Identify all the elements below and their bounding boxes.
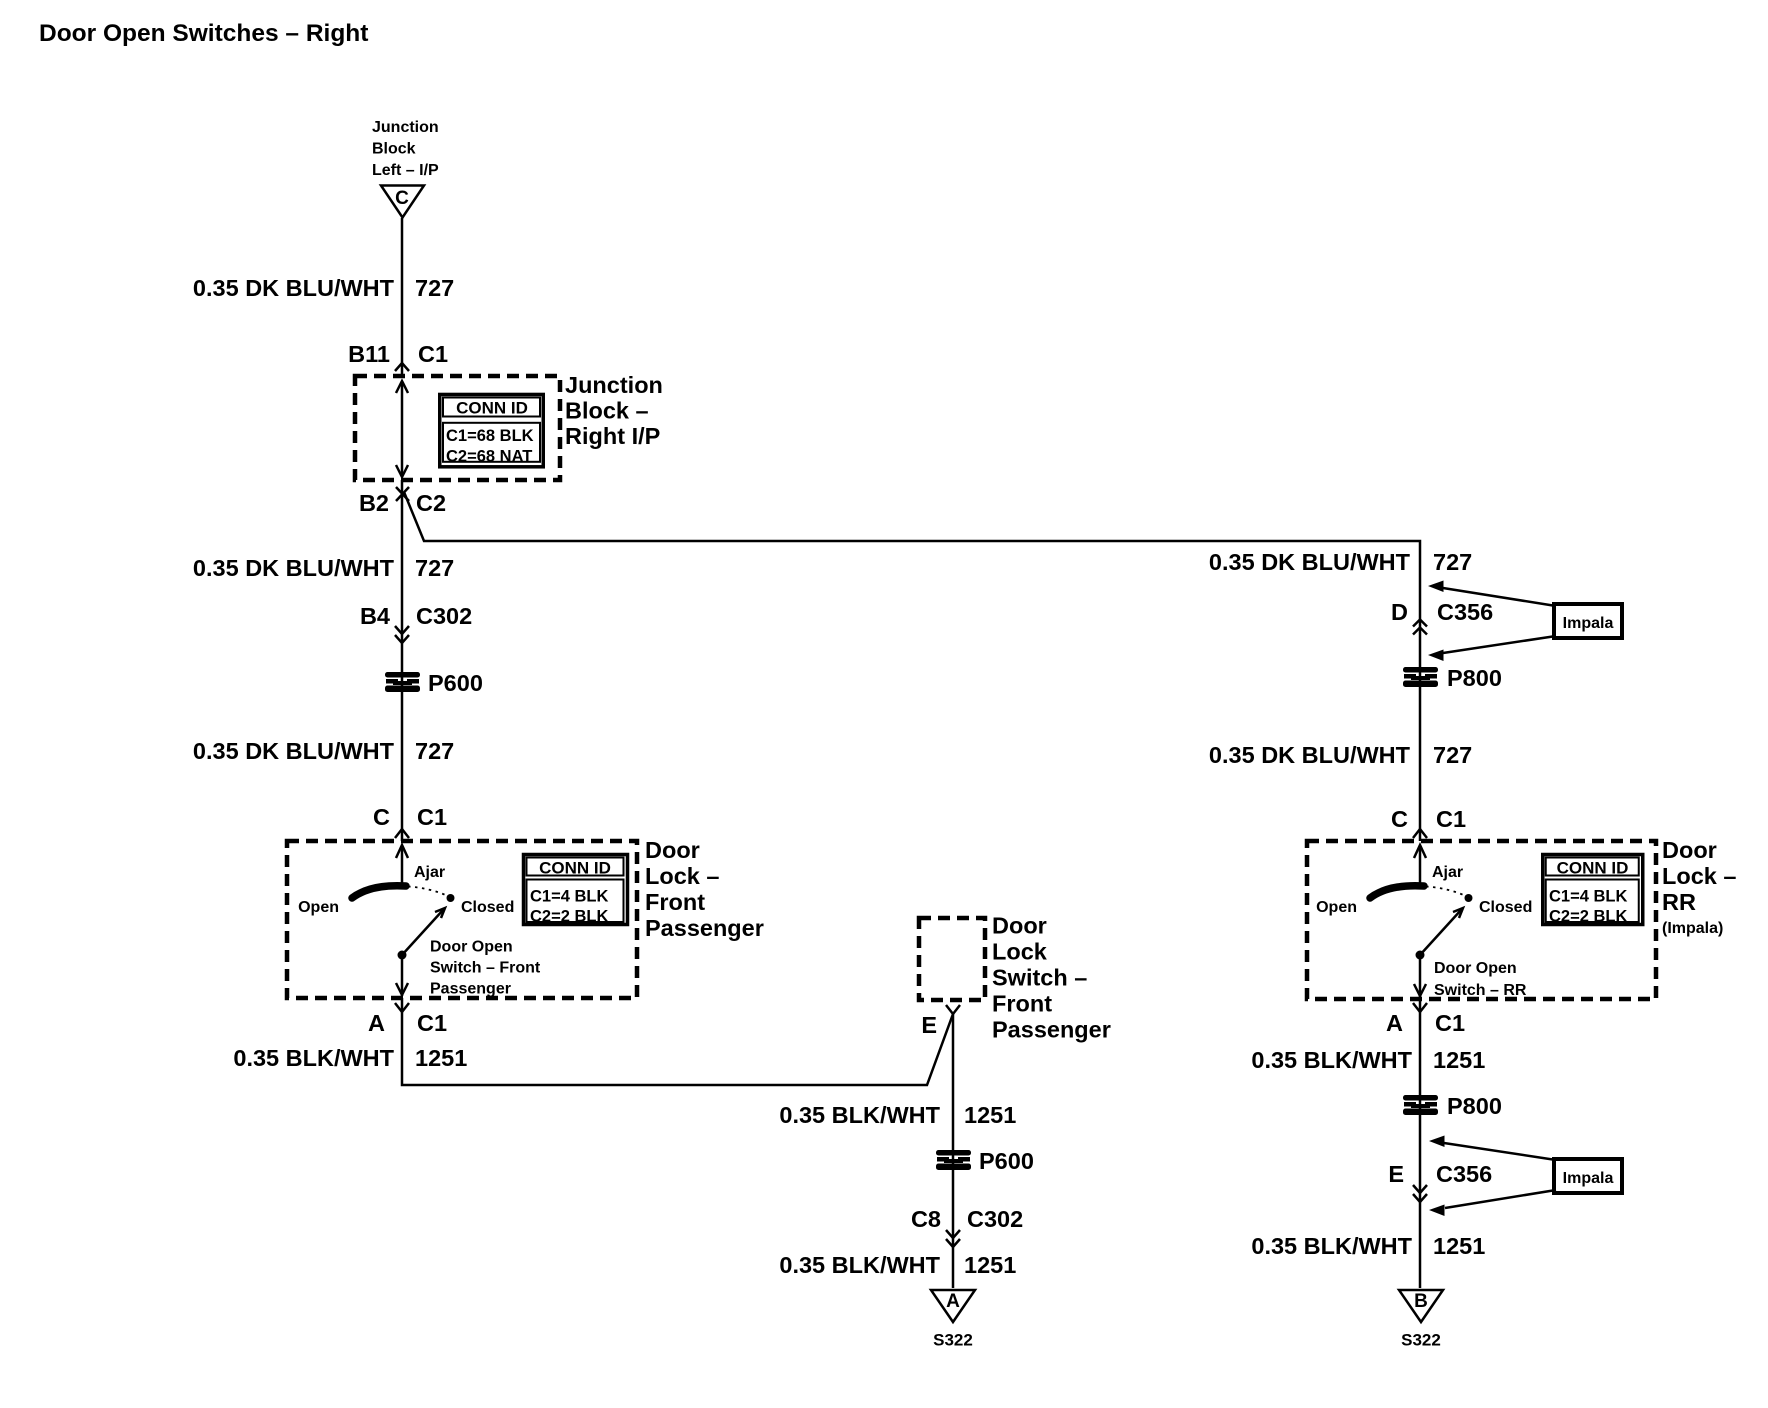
svg-text:Right I/P: Right I/P: [565, 423, 660, 449]
svg-text:0.35 BLK/WHT: 0.35 BLK/WHT: [1251, 1233, 1412, 1259]
svg-text:727: 727: [415, 738, 454, 764]
splice triangle A (S322): [931, 1290, 975, 1322]
connector triangle C: [381, 186, 424, 218]
svg-text:C1: C1: [417, 1010, 447, 1036]
arrowhead up inside junction block: [396, 381, 408, 393]
svg-text:0.35 DK BLU/WHT: 0.35 DK BLU/WHT: [193, 555, 395, 581]
wire from switch RR to box bottom: [1419, 955, 1422, 997]
svg-text:1251: 1251: [415, 1045, 467, 1071]
svg-text:RR: RR: [1662, 889, 1696, 915]
svg-text:C2=2 BLK: C2=2 BLK: [1549, 908, 1627, 926]
svg-text:B4: B4: [360, 603, 390, 629]
wire from switch to box bottom: [401, 955, 404, 996]
svg-text:E: E: [1388, 1161, 1404, 1187]
svg-text:Closed: Closed: [461, 899, 514, 916]
svg-text:C356: C356: [1437, 599, 1493, 625]
svg-text:C1=4 BLK: C1=4 BLK: [530, 888, 608, 906]
svg-text:Door Open: Door Open: [1434, 960, 1517, 977]
svg-text:C2: C2: [416, 490, 446, 516]
door lock RR dashed box: [1307, 841, 1656, 999]
svg-text:C302: C302: [416, 603, 472, 629]
arrowhead down inside junction block: [396, 465, 408, 477]
grommet P800 (right upper): [1403, 667, 1438, 687]
svg-text:1251: 1251: [964, 1252, 1016, 1278]
svg-text:Ajar: Ajar: [1432, 864, 1463, 881]
svg-text:Ajar: Ajar: [414, 864, 445, 881]
Impala pointer arrow (to E/C356): [1429, 1136, 1445, 1148]
wire from junction block down to door lock front passenger: [401, 480, 404, 841]
connector chevron at E (door lock switch FP): [946, 1005, 960, 1014]
svg-text:727: 727: [1433, 742, 1472, 768]
wire from door lock FP to door lock switch FP: [402, 998, 953, 1085]
arrowhead down (to pin A, RR): [1414, 984, 1426, 996]
svg-text:Passenger: Passenger: [430, 981, 511, 998]
switch actuator arrow to Closed (RR): [1420, 910, 1461, 955]
Impala tag box (upper): [1554, 604, 1622, 638]
grommet P600 (middle): [936, 1150, 971, 1170]
svg-text:CONN ID: CONN ID: [1557, 859, 1629, 878]
svg-text:0.35 DK BLU/WHT: 0.35 DK BLU/WHT: [1209, 742, 1411, 768]
grommet P600 (left): [385, 672, 420, 692]
svg-text:727: 727: [415, 555, 454, 581]
svg-text:B2: B2: [359, 490, 389, 516]
svg-text:C: C: [1391, 806, 1408, 832]
connector double chevron at C8/C302: [946, 1230, 960, 1238]
grommet P800 (right lower): [1403, 1095, 1438, 1115]
CONN ID table (junction block): [440, 394, 544, 466]
wire inside junction block: [401, 381, 404, 477]
svg-text:(Impala): (Impala): [1662, 920, 1723, 937]
svg-text:Switch –: Switch –: [992, 965, 1087, 991]
junction block right I/P dashed box: [355, 376, 560, 480]
Impala tag box (lower): [1554, 1159, 1622, 1193]
CONN ID table (door lock RR): [1543, 855, 1643, 925]
svg-text:C1: C1: [417, 804, 447, 830]
connector chevron at C/C1: [395, 829, 409, 838]
svg-text:0.35 BLK/WHT: 0.35 BLK/WHT: [1251, 1047, 1412, 1073]
svg-text:C302: C302: [967, 1206, 1023, 1232]
connector chevron at C/C1 (RR): [1413, 829, 1427, 838]
svg-text:B: B: [1414, 1291, 1428, 1312]
svg-text:Junction: Junction: [565, 372, 663, 398]
wire branch from B2/C2 to right rear branch: [404, 492, 1420, 841]
svg-text:Impala: Impala: [1563, 1170, 1614, 1187]
svg-text:Lock –: Lock –: [645, 863, 719, 889]
wire from door lock RR down to S322 B: [1419, 999, 1422, 1288]
dotted travel arc to Closed: [408, 887, 448, 897]
svg-text:0.35 DK BLU/WHT: 0.35 DK BLU/WHT: [1209, 549, 1411, 575]
svg-text:A: A: [946, 1291, 960, 1312]
wire inside door lock FP (ajar): [401, 845, 404, 886]
arrowhead down (to pin A): [396, 983, 408, 995]
svg-text:E: E: [921, 1012, 937, 1038]
svg-text:Block: Block: [372, 141, 416, 158]
svg-text:CONN ID: CONN ID: [456, 399, 528, 418]
Impala pointer arrow (lower, to P800): [1428, 650, 1444, 662]
svg-text:P600: P600: [979, 1148, 1034, 1174]
svg-text:Open: Open: [1316, 899, 1357, 916]
switch pivot dot (RR): [1416, 951, 1425, 960]
svg-text:0.35 BLK/WHT: 0.35 BLK/WHT: [779, 1252, 940, 1278]
svg-text:C1: C1: [418, 341, 448, 367]
svg-text:C2=68 NAT: C2=68 NAT: [446, 448, 532, 466]
svg-text:Passenger: Passenger: [992, 1017, 1111, 1043]
svg-text:727: 727: [1433, 549, 1472, 575]
svg-text:C2=2 BLK: C2=2 BLK: [530, 908, 608, 926]
svg-text:Front: Front: [645, 889, 705, 915]
connector double chevron up at D/C356: [1413, 620, 1427, 627]
Impala pointer arrow (below E/C356): [1429, 1205, 1445, 1217]
CONN ID table (door lock FP): [524, 855, 628, 925]
svg-text:Left – I/P: Left – I/P: [372, 162, 439, 179]
svg-text:Lock: Lock: [992, 939, 1048, 965]
svg-text:Block –: Block –: [565, 398, 649, 424]
svg-text:P800: P800: [1447, 1093, 1502, 1119]
svg-text:Door: Door: [1662, 837, 1717, 863]
Impala pointer arrow (upper, to D/C356): [1428, 581, 1444, 593]
door lock front passenger dashed box: [287, 841, 637, 998]
wire from door lock switch FP down to S322 A: [952, 1014, 955, 1288]
connector double chevron at B4/C302: [395, 626, 409, 634]
svg-text:0.35 BLK/WHT: 0.35 BLK/WHT: [233, 1045, 394, 1071]
svg-text:P600: P600: [428, 670, 483, 696]
svg-text:Switch – Front: Switch – Front: [430, 960, 541, 977]
svg-text:C: C: [373, 804, 390, 830]
splice triangle B (S322): [1399, 1290, 1443, 1322]
svg-text:Front: Front: [992, 991, 1052, 1017]
svg-text:0.35 DK BLU/WHT: 0.35 DK BLU/WHT: [193, 275, 395, 301]
svg-text:C1: C1: [1436, 806, 1466, 832]
svg-text:Door: Door: [645, 837, 700, 863]
svg-text:Switch – RR: Switch – RR: [1434, 982, 1527, 999]
svg-text:C1=68 BLK: C1=68 BLK: [446, 427, 534, 445]
switch blade (door open switch RR): [1370, 886, 1424, 898]
svg-text:CONN ID: CONN ID: [539, 859, 611, 878]
svg-text:A: A: [368, 1010, 385, 1036]
connector chevron at B11/C1: [395, 363, 409, 371]
arrowhead up (ajar wire RR): [1414, 845, 1426, 858]
svg-text:S322: S322: [1401, 1331, 1441, 1350]
contact Closed dot (RR): [1465, 894, 1473, 902]
connector X mark at B2/C2: [396, 487, 409, 501]
wire inside door lock RR (ajar): [1419, 845, 1422, 886]
svg-text:Junction: Junction: [372, 119, 439, 136]
svg-text:Door Open: Door Open: [430, 939, 513, 956]
svg-text:Passenger: Passenger: [645, 915, 764, 941]
svg-text:Door Open Switches – Right: Door Open Switches – Right: [39, 20, 368, 47]
arrowhead up (ajar wire): [396, 845, 408, 858]
svg-text:0.35 BLK/WHT: 0.35 BLK/WHT: [779, 1102, 940, 1128]
switch actuator arrow to Closed: [402, 910, 443, 955]
svg-text:A: A: [1386, 1010, 1403, 1036]
svg-text:Door: Door: [992, 913, 1047, 939]
svg-text:S322: S322: [933, 1331, 973, 1350]
connector chevron at A/C1: [395, 1003, 409, 1012]
svg-text:1251: 1251: [964, 1102, 1016, 1128]
wire from triangle C down to junction block: [401, 218, 404, 376]
svg-text:1251: 1251: [1433, 1233, 1485, 1259]
switch blade (door open switch front passenger): [352, 886, 406, 898]
svg-text:D: D: [1391, 599, 1408, 625]
svg-text:P800: P800: [1447, 665, 1502, 691]
svg-text:Impala: Impala: [1563, 615, 1614, 632]
svg-text:Lock –: Lock –: [1662, 863, 1736, 889]
svg-text:Closed: Closed: [1479, 899, 1532, 916]
svg-text:C: C: [395, 188, 409, 209]
svg-text:B11: B11: [348, 341, 390, 367]
svg-text:0.35 DK BLU/WHT: 0.35 DK BLU/WHT: [193, 738, 395, 764]
contact Closed dot: [447, 894, 455, 902]
dotted travel arc to Closed (RR): [1426, 887, 1466, 897]
connector double chevron at E/C356: [1413, 1185, 1427, 1193]
door lock switch front passenger dashed box: [919, 918, 985, 1000]
switch pivot dot: [398, 951, 407, 960]
svg-text:C8: C8: [911, 1206, 941, 1232]
svg-text:Open: Open: [298, 899, 339, 916]
connector chevron at A/C1 (RR): [1413, 1003, 1427, 1012]
svg-text:C356: C356: [1436, 1161, 1492, 1187]
svg-text:C1=4 BLK: C1=4 BLK: [1549, 888, 1627, 906]
svg-text:C1: C1: [1435, 1010, 1465, 1036]
svg-text:727: 727: [415, 275, 454, 301]
svg-text:1251: 1251: [1433, 1047, 1485, 1073]
